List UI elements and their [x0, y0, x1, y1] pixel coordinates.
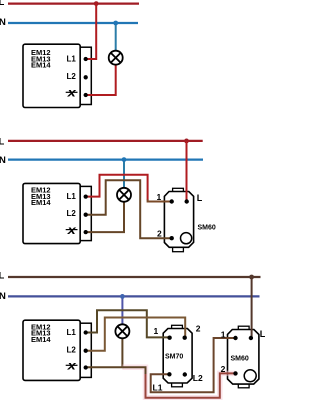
wire N line (neutral, section 2): [8, 159, 203, 161]
terminal dot 1 of S3: [233, 336, 237, 340]
terminal dot L2 of U2: [84, 213, 88, 217]
wire neutral drop to lamp E1: [115, 23, 117, 51]
junction dot on L line: [94, 1, 99, 6]
svg-text:1: 1: [154, 326, 159, 336]
wire L line (phase, section 1): [8, 2, 139, 4]
svg-text:L: L: [0, 0, 5, 8]
switch S1 (SM60) top mounting tab: [173, 188, 184, 192]
wire phase drop to terminal L1 of U1: [85, 3, 96, 60]
switch S3 (SM60) body: [228, 330, 259, 385]
svg-text:SM70: SM70: [165, 353, 183, 360]
svg-text:2: 2: [157, 229, 162, 239]
wire phase drop to terminal L of S3 (SM60): [251, 277, 253, 338]
switch S2 (SM70) bottom mounting tab: [172, 382, 183, 387]
terminal dot bottom-right of S2: [183, 372, 187, 376]
svg-text:L2: L2: [67, 209, 77, 218]
junction dot on N line: [120, 294, 125, 299]
svg-text:2: 2: [221, 364, 226, 374]
wire neutral drop to lamp E2: [123, 160, 125, 188]
terminal dot L1 of U3: [84, 330, 88, 334]
switch S3 (SM60) top mounting tab: [238, 326, 249, 330]
actuator symbol of U3: [66, 359, 78, 372]
svg-text:EM14: EM14: [31, 61, 51, 70]
terminal dot 2 (top-right) of S2: [183, 336, 187, 340]
switch S2 (SM70) body: [163, 329, 192, 384]
junction dot on N line: [122, 157, 127, 162]
terminal strip of U3: [80, 323, 91, 377]
svg-text:EM14: EM14: [31, 335, 51, 344]
wire lamp node to terminal 2 of S3 (SM60), bottom run: [146, 373, 236, 397]
wire lamp return to actuator terminal of U1: [85, 65, 116, 96]
terminal dot 2 of S1: [170, 236, 174, 240]
wire L line (phase, section 3): [8, 276, 261, 278]
actuator symbol of U2: [66, 223, 78, 236]
svg-text:L: L: [0, 137, 5, 148]
svg-text:L: L: [197, 193, 203, 203]
switch S2 (SM70) top mounting tab: [172, 325, 183, 329]
push button of S3: [244, 370, 256, 382]
wire U2 terminal L2 to terminal 2 of S1: [85, 180, 172, 238]
pink halo of bottom return wires: [122, 367, 235, 398]
svg-text:N: N: [0, 17, 6, 28]
svg-text:L2: L2: [67, 345, 77, 354]
svg-text:L: L: [0, 271, 5, 282]
wire U3 terminal L2 to terminal 2 of S2 (SM70): [85, 318, 185, 351]
terminal dot L2 of U3: [84, 349, 88, 353]
svg-text:SM60: SM60: [198, 224, 216, 231]
wire lamp E2 return to actuator terminal of U2: [85, 202, 124, 233]
terminal strip of U2: [80, 186, 91, 240]
svg-text:L1: L1: [67, 328, 77, 337]
receiver module U1 (EM12/EM13/EM14) body: [23, 44, 80, 107]
terminal strip of U1: [80, 47, 91, 104]
junction dot on N line: [113, 21, 118, 26]
wire lamp node to terminal 2 of S3 (SM60), first leg: [122, 367, 145, 375]
svg-text:L: L: [260, 329, 266, 339]
wire phase drop to terminal L of S1 (SM60): [186, 141, 188, 202]
terminal dot L of S1: [185, 199, 189, 203]
terminal dot L1 of U1: [84, 57, 88, 61]
terminal dot 2 of S3: [233, 371, 237, 375]
svg-text:EM14: EM14: [31, 198, 51, 207]
lamp E2: [117, 188, 131, 202]
switch S1 (SM60) body: [164, 192, 193, 248]
terminal dot 1 (top-left) of S2: [167, 336, 171, 340]
terminal dot actuator of U3: [84, 365, 88, 369]
svg-text:L1: L1: [67, 55, 77, 64]
wire segment into terminal 1 of S1: [148, 199, 172, 201]
switch S3 (SM60) bottom mounting tab: [238, 383, 249, 388]
wire N line (neutral, section 3): [8, 295, 260, 297]
wire L line (phase, section 2): [8, 140, 203, 142]
svg-text:L1: L1: [153, 382, 163, 392]
terminal dot 1 of S1: [170, 199, 174, 203]
wire N line (neutral, section 1): [8, 22, 138, 24]
svg-text:L1: L1: [67, 192, 77, 201]
wire U3 terminal L1 to terminal 1 of S2 (SM70): [85, 310, 170, 337]
svg-text:SM60: SM60: [231, 355, 249, 362]
terminal dot L2 of U1: [84, 75, 88, 79]
wire neutral drop to lamp E3: [121, 296, 123, 324]
switch S1 (SM60) bottom mounting tab: [173, 247, 184, 251]
push button of S1: [181, 233, 192, 244]
terminal dot L1 of U2: [84, 194, 88, 198]
receiver module U3 (EM12/EM13/EM14) body: [23, 320, 80, 380]
lamp E1: [109, 51, 123, 65]
terminal dot bottom-left of S2: [167, 372, 171, 376]
actuator symbol of U1: [66, 86, 78, 99]
lamp E3: [115, 324, 129, 338]
wire lamp E3 return to actuator terminal of U3: [85, 339, 122, 368]
junction dot on L line: [184, 139, 189, 144]
terminal dot L of S3: [249, 336, 253, 340]
wire terminal 1 of S3 to bottom-left terminal of S2: [151, 338, 236, 392]
svg-text:L2: L2: [67, 72, 77, 81]
svg-text:1: 1: [157, 192, 162, 202]
svg-text:N: N: [0, 291, 6, 302]
junction dot on L line: [249, 275, 254, 280]
wire U2 terminal L1 to terminal 1 of S1: [85, 175, 148, 201]
receiver module U2 (EM12/EM13/EM14) body: [23, 183, 80, 243]
svg-text:N: N: [0, 155, 6, 166]
svg-text:L2: L2: [193, 373, 203, 383]
svg-text:2: 2: [196, 324, 201, 334]
terminal dot actuator of U2: [84, 230, 88, 234]
svg-text:1: 1: [221, 330, 226, 340]
terminal dot actuator of U1: [84, 93, 88, 97]
